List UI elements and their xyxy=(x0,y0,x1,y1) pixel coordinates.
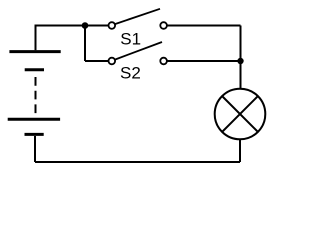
svg-text:S2: S2 xyxy=(120,64,141,83)
svg-text:S1: S1 xyxy=(120,30,141,49)
